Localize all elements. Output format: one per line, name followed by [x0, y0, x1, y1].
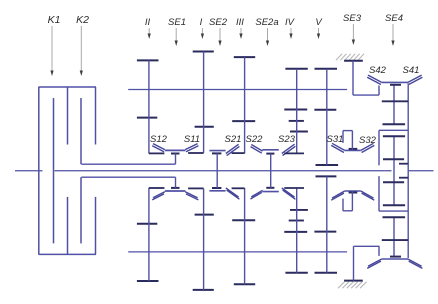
synchronizer S42/S41 sleeve upper	[382, 81, 408, 83]
arrow II	[148, 28, 151, 39]
synchronizer S11 cone lower	[185, 192, 198, 200]
clutch middle divider lower	[67, 197, 69, 255]
final drive bar y124	[383, 123, 406, 125]
synchronizer S31 cone lower	[331, 191, 345, 200]
final drive bar y217	[383, 216, 406, 218]
synchronizer S22/S23 hub bar lower	[266, 187, 274, 189]
gear III vertical upper	[244, 57, 246, 153]
final drive bar y101	[382, 100, 408, 102]
final drive center stem lower	[393, 217, 395, 257]
svg-text:S21: S21	[225, 134, 242, 145]
wire anchor to gear bottom	[354, 245, 380, 247]
synchronizer S12/S11 hub stem lower	[175, 177, 177, 188]
synchronizer S21 cone upper	[226, 144, 240, 155]
synchronizer S22/S23 sleeve upper	[262, 149, 279, 151]
synchronizer S23 cone lower	[282, 188, 296, 199]
svg-text:III: III	[236, 17, 244, 28]
synchronizer S22/S23 hub stem lower	[270, 171, 272, 188]
synchronizer S23 cone upper	[282, 144, 296, 155]
final drive bar y159	[383, 158, 404, 160]
synchronizer S32 cone lower	[361, 191, 375, 200]
synchronizer S31/S32 bridge upper	[343, 131, 352, 143]
synchronizer S22 cone upper	[251, 145, 263, 154]
final drive center stem middle	[393, 136, 395, 205]
gear III foot upper	[232, 152, 245, 154]
synchronizer S12/S11 sleeve upper	[165, 149, 186, 151]
synchronizer S12/S11 sleeve lower	[165, 190, 186, 192]
final drive bar y205	[383, 204, 405, 206]
gear IV countershaft gear cap top	[285, 68, 307, 70]
synchronizer S31/S32 hub bar upper	[349, 148, 358, 150]
gear IV tick upper b	[290, 131, 308, 133]
svg-text:S31: S31	[327, 134, 344, 145]
wire hollow shaft upper line	[81, 163, 175, 165]
gear V hub collar lower	[316, 175, 337, 177]
synchronizer S11 cone upper	[185, 144, 198, 152]
synchronizer S21 hub stem lower	[216, 171, 218, 188]
final drive collar y163	[399, 163, 408, 165]
gear V mirror cap top	[314, 231, 336, 233]
gear IV tick upper a	[289, 120, 304, 122]
synchronizer S41 cone lower	[408, 259, 423, 268]
gear IV mirror cap bottom	[285, 272, 307, 274]
synchronizer S22/S23 hub stem upper	[270, 154, 272, 171]
gear IV collar lower	[284, 187, 304, 189]
arrow SE3	[352, 24, 355, 45]
housing anchor stem bottom	[353, 246, 355, 280]
synchronizer S21 hub stem upper	[216, 153, 218, 170]
final drive collar y177	[399, 177, 408, 179]
final drive bar y240	[382, 239, 408, 241]
synchronizer S21 hub bar lower	[212, 187, 221, 189]
clutch housing left wall	[38, 87, 40, 254]
gear I countershaft gear cap top	[193, 51, 214, 53]
final drive bar y211 blue	[379, 210, 408, 212]
synchronizer S31/S32 bridge lower	[343, 199, 352, 211]
synchronizer S32 cone upper	[361, 143, 375, 152]
arrow K1	[50, 26, 53, 76]
gear I foot lower	[188, 187, 204, 189]
gear II vertical upper	[148, 60, 150, 153]
synchronizer S12/S11 hub stem upper	[175, 154, 177, 165]
svg-text:SE3: SE3	[343, 13, 362, 24]
gear I mirror cap top	[195, 214, 214, 216]
gear I foot upper	[188, 152, 204, 154]
gear V hub collar upper	[316, 164, 339, 166]
synchronizer S21 hub bar upper	[212, 152, 221, 154]
arrow IV	[289, 28, 292, 39]
synchronizer S42 cone lower	[367, 259, 382, 268]
synchronizer S22/S23 sleeve lower	[262, 191, 279, 193]
svg-text:S41: S41	[403, 65, 420, 76]
gear S41 right vertical	[407, 83, 409, 258]
synchronizer S12 cone upper	[152, 144, 165, 152]
gear IV vertical upper	[296, 69, 298, 154]
clutch housing right wall lower	[95, 197, 97, 255]
arrow K2	[80, 26, 83, 76]
final drive bar y130 blue	[379, 129, 408, 131]
wire upper countershaft centerline	[128, 89, 347, 91]
gear S42 left vertical segment c	[378, 176, 380, 211]
svg-text:K2: K2	[76, 14, 89, 26]
synchronizer S42/S41 sleeve lower	[382, 258, 408, 260]
gear III vertical lower	[244, 188, 246, 284]
final drive center stem upper	[393, 85, 395, 125]
gear III mirror cap bottom	[234, 283, 255, 285]
svg-text:SE4: SE4	[385, 13, 403, 24]
synchronizer S31 cone upper	[331, 143, 345, 152]
clutch K2 inner plate lower	[80, 177, 82, 243]
synchronizer S31/S32 hub stem lower	[351, 192, 353, 211]
synchronizer S21 cone lower	[226, 188, 240, 199]
clutch K2 inner plate upper	[80, 98, 82, 164]
gear IV tick lower b	[290, 209, 308, 211]
synchronizer S31/S32 sleeve upper	[345, 149, 361, 151]
svg-text:SE1: SE1	[168, 17, 186, 28]
gear IV vertical lower	[296, 188, 298, 273]
clutch housing right wall upper	[95, 87, 97, 145]
arrow SE4	[391, 24, 394, 46]
clutch housing top bar	[39, 86, 97, 88]
gear II foot lower	[149, 187, 165, 189]
housing anchor bar bottom	[344, 280, 363, 282]
gear II foot upper	[149, 152, 165, 154]
gear I vertical lower	[203, 189, 205, 290]
housing anchor hatching bottom	[338, 282, 367, 288]
arrow III	[239, 28, 242, 39]
arrow I	[201, 28, 204, 39]
synchronizer S12/S11 hub bar upper	[171, 153, 180, 155]
wire output stub centerline right	[408, 170, 434, 172]
gear V mirror cap bottom	[315, 272, 338, 274]
gear III mirror cap top	[232, 219, 255, 221]
gear II countershaft gear cap bottom	[137, 117, 157, 119]
wire hollow shaft lower line	[81, 176, 175, 178]
synchronizer S42 cone upper	[367, 75, 382, 84]
svg-text:S23: S23	[278, 134, 296, 145]
synchronizer S42/S41 hub bar upper	[390, 84, 401, 86]
svg-text:I: I	[200, 17, 203, 28]
wire input shaft centerline	[15, 170, 43, 172]
gear S42 left vertical segment b	[378, 130, 380, 165]
arrow V	[317, 28, 320, 39]
gear V vertical upper	[326, 69, 328, 165]
gear II vertical lower	[148, 188, 150, 281]
gear S42 left vertical segment d	[378, 246, 380, 256]
housing anchor SE3 hatching top	[336, 54, 364, 60]
gear III countershaft gear cap top	[234, 56, 255, 58]
synchronizer S31/S32 hub bar lower	[349, 192, 358, 194]
svg-text:S42: S42	[369, 65, 387, 76]
gear III foot lower	[232, 187, 245, 189]
gear I vertical upper	[203, 52, 205, 153]
wire main solid shaft centerline	[55, 170, 392, 172]
wire lower countershaft centerline	[128, 251, 347, 253]
arrow SE2a	[266, 28, 269, 46]
gear II countershaft gear cap top	[137, 59, 159, 61]
final drive bar y136	[383, 135, 405, 137]
gear IV countershaft gear cap bottom	[284, 109, 307, 111]
clutch K1 inner plate	[53, 98, 55, 243]
gear I mirror cap bottom	[193, 289, 214, 291]
svg-text:II: II	[145, 17, 151, 28]
svg-text:K1: K1	[48, 14, 61, 26]
svg-text:S12: S12	[150, 134, 168, 145]
clutch housing bottom bar	[39, 253, 97, 255]
housing anchor SE3 bar top	[344, 60, 363, 62]
synchronizer S22 cone lower	[251, 190, 263, 199]
synchronizer S21 sleeve bar upper	[209, 150, 225, 152]
svg-text:S11: S11	[184, 134, 200, 145]
gear I countershaft gear cap bottom	[195, 126, 214, 128]
arrow SE2	[218, 28, 221, 46]
arrow SE1	[175, 28, 178, 46]
synchronizer S22/S23 hub bar upper	[266, 153, 274, 155]
gear II mirror cap bottom	[137, 280, 159, 282]
synchronizer S12/S11 hub bar lower	[171, 187, 180, 189]
synchronizer S41 cone upper	[408, 75, 423, 84]
gear V countershaft gear cap bottom	[314, 109, 336, 111]
synchronizer S31/S32 sleeve lower	[345, 190, 361, 192]
wire anchor to gear S42	[353, 94, 379, 96]
gear III countershaft gear cap bottom	[232, 120, 255, 122]
svg-text:S32: S32	[359, 135, 377, 146]
synchronizer S12 cone lower	[152, 192, 165, 200]
gear V vertical lower	[326, 176, 328, 272]
synchronizer S42/S41 hub bar lower	[390, 256, 401, 258]
gear IV collar upper	[284, 152, 304, 154]
housing anchor SE3 stem top	[352, 61, 354, 95]
gear IV mirror cap top	[284, 231, 307, 233]
final drive bar y182	[383, 181, 404, 183]
synchronizer S31/S32 hub stem upper	[351, 131, 353, 150]
gear IV tick lower a	[289, 220, 304, 222]
gear V countershaft gear cap top	[315, 68, 338, 70]
svg-text:SE2: SE2	[209, 17, 228, 28]
gear II mirror cap top	[137, 223, 157, 225]
synchronizer S21 sleeve bar lower	[209, 190, 225, 192]
svg-text:S22: S22	[246, 134, 264, 145]
clutch middle divider upper	[67, 87, 69, 145]
gear S42 left vertical segment a	[378, 86, 380, 96]
svg-text:SE2a: SE2a	[255, 17, 278, 28]
